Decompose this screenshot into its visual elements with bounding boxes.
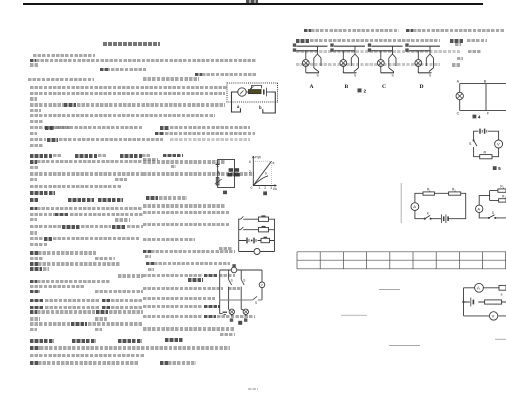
caption 图2 <box>358 88 367 93</box>
resistor R2 (图7) <box>499 195 506 202</box>
wires (图7) <box>479 191 506 218</box>
caption 甲 (Q3) <box>223 191 227 195</box>
top branch with ammeter (图9) <box>464 283 500 292</box>
svg-text:S: S <box>392 74 395 78</box>
battery (图6) <box>442 214 449 223</box>
svg-text:V: V <box>492 314 495 319</box>
divider line <box>400 183 402 223</box>
battery (Q3 circuit) <box>216 164 220 166</box>
switch (Q3 circuit) <box>218 171 220 175</box>
graph line a <box>253 161 271 185</box>
svg-text:B: B <box>345 84 349 90</box>
svg-text:a: a <box>237 104 240 109</box>
resistor R1 (图6) <box>423 188 434 196</box>
small source circuit 甲 (Q3) frame <box>218 160 235 188</box>
svg-text:5: 5 <box>498 166 501 171</box>
caption 图5 <box>493 166 501 171</box>
svg-text:2: 2 <box>249 170 251 174</box>
graph dashed guides <box>253 161 271 185</box>
lamp labels (图8) <box>230 318 248 321</box>
ohmmeter dashed box 图1 <box>227 83 278 102</box>
svg-text:a: a <box>501 292 503 296</box>
ammeter (图6) <box>411 203 419 211</box>
option label A <box>310 84 314 90</box>
svg-text:S: S <box>492 211 495 215</box>
svg-text:S: S <box>354 74 357 78</box>
svg-text:S: S <box>255 301 257 305</box>
caption 甲 (graph) <box>263 191 267 195</box>
svg-text:A: A <box>413 204 416 209</box>
node B <box>484 80 487 84</box>
svg-text:C: C <box>382 84 386 90</box>
terminal label a <box>237 104 240 109</box>
switch K (图6) <box>424 211 431 219</box>
top wire AB <box>460 83 506 85</box>
switch label S2 (C) <box>392 74 395 78</box>
staircase circuit C <box>372 46 403 73</box>
voltmeter V (图5) <box>495 140 503 148</box>
series circuit 图6 frame <box>415 193 466 218</box>
svg-text:A: A <box>478 207 481 211</box>
lamp circuit top-right (图4): node A <box>457 80 460 84</box>
series circuit 图5: wire frame <box>474 131 499 157</box>
svg-text:S: S <box>231 278 233 282</box>
switch label S2 (A) <box>317 74 320 78</box>
svg-text:S: S <box>317 74 320 78</box>
parallel branch circuit 甲 (Q5) left rail <box>238 219 240 252</box>
answer blank line 4 (right edge) <box>495 338 506 340</box>
lamp 2 (图8) <box>241 309 248 316</box>
lamp label (circuit A hot/neutral marks) <box>293 43 296 51</box>
resistor middle (图9) <box>485 300 502 304</box>
staircase circuit A <box>297 46 328 73</box>
rheostat (Q3 circuit) <box>215 178 222 185</box>
bottom-right circuit 图9 left rail <box>463 288 464 316</box>
svg-text:S: S <box>469 142 472 146</box>
option label B <box>345 84 349 90</box>
middle wire (图8) <box>220 299 262 301</box>
header stub text cut at top <box>246 0 258 3</box>
footer page number <box>248 388 258 390</box>
option label D <box>420 84 424 90</box>
svg-text:a: a <box>273 161 275 165</box>
resistor branch2 <box>259 226 269 232</box>
resistor top right (图9, cut) <box>499 285 506 296</box>
wire left lead to terminal a <box>232 92 241 112</box>
svg-text:V: V <box>261 283 263 287</box>
node C <box>457 111 460 115</box>
lamp 1 (图8) <box>229 309 235 316</box>
staircase circuit D <box>409 46 440 73</box>
svg-text:2: 2 <box>364 88 367 93</box>
I-U graph axes (图甲) <box>253 156 277 186</box>
battery (图8) <box>220 312 227 314</box>
terminal label b <box>259 105 262 110</box>
svg-text:1: 1 <box>259 186 261 190</box>
rheostat R (ohmmeter, olive box) <box>249 85 262 93</box>
svg-text:I/A: I/A <box>273 187 278 191</box>
svg-text:S: S <box>429 74 432 78</box>
staircase circuit B <box>334 46 365 73</box>
svg-text:b: b <box>265 172 267 176</box>
parallel circuit 图7 (cut at edge): ammeter <box>476 205 483 212</box>
graph labels <box>249 155 278 191</box>
wire right lead to terminal b <box>263 92 276 113</box>
svg-text:3: 3 <box>270 186 272 190</box>
battery branch3 <box>247 238 256 244</box>
bold text blob over figure <box>227 168 239 176</box>
node F wire BF <box>486 84 490 116</box>
svg-text:A: A <box>310 84 314 90</box>
top rule <box>23 3 483 4</box>
branch rail 2 with switch S2 (图8) <box>241 270 245 309</box>
svg-text:P/W: P/W <box>255 155 262 159</box>
right rail <box>274 219 276 252</box>
wire ammeter to rheostat <box>246 91 248 93</box>
battery (ohmmeter) <box>264 88 272 97</box>
answer blank line 1 <box>379 288 400 290</box>
resistor R1 (图7) <box>498 185 506 193</box>
switch S (图5) <box>469 140 477 146</box>
option label C <box>382 84 386 90</box>
answer table <box>297 252 506 269</box>
svg-text:A: A <box>457 80 460 84</box>
svg-text:4: 4 <box>478 114 481 119</box>
caption 图8 <box>238 321 242 325</box>
branch rail 1 with switch S1 (图8) <box>229 270 233 309</box>
svg-text:S: S <box>243 278 245 282</box>
svg-text:V: V <box>497 142 500 147</box>
branch 3 wire <box>239 240 275 242</box>
switch label S2 (B) <box>354 74 357 78</box>
bottom wire (图8) <box>232 315 246 316</box>
right rail with voltmeter (图8) <box>259 270 265 300</box>
ammeter top (图8) <box>231 264 237 273</box>
hot/neutral marks (D) <box>405 43 408 51</box>
svg-text:F: F <box>487 111 490 115</box>
bottom branch with voltmeter (图9) <box>464 312 506 320</box>
left rail (图8) <box>219 270 221 314</box>
answer blank line 3 <box>389 345 420 347</box>
svg-text:0: 0 <box>251 186 253 190</box>
svg-text:b: b <box>259 105 262 110</box>
svg-text:K: K <box>427 211 430 215</box>
svg-text:B: B <box>484 80 487 84</box>
branch 1 wire with switch <box>239 216 275 219</box>
answer blank line 2 <box>341 314 367 316</box>
resistor R2 (图6) <box>449 188 461 196</box>
hot/neutral marks (C) <box>368 43 371 51</box>
title 九年级物理电学竞赛试题 <box>103 42 160 46</box>
switch label S2 (D) <box>429 74 432 78</box>
svg-text:2: 2 <box>264 186 266 190</box>
switch S3 (图8) <box>253 296 258 304</box>
svg-text:C: C <box>457 111 460 115</box>
branch 2 wire with switch <box>239 227 275 230</box>
resistor R (图5) <box>480 151 492 159</box>
switch S (图7) <box>488 211 496 219</box>
middle branch battery (图9) <box>464 298 506 307</box>
battery (图5) <box>480 129 487 134</box>
Q5 circuit 图8 top wire <box>220 269 262 271</box>
svg-text:6: 6 <box>249 160 251 164</box>
graph curve b <box>253 176 268 186</box>
svg-text:R: R <box>484 151 487 155</box>
rheostat branch3 <box>261 237 270 243</box>
hot/neutral marks (B) <box>330 43 333 51</box>
bottom meter <box>239 249 275 255</box>
svg-text:A: A <box>477 286 480 291</box>
resistor branch1 <box>259 215 269 221</box>
ammeter G (ohmmeter galvanometer) <box>238 88 246 96</box>
caption 图4 <box>473 114 482 119</box>
lamp L <box>456 84 463 111</box>
svg-text:D: D <box>420 84 424 90</box>
bottom wire CF <box>460 110 506 112</box>
